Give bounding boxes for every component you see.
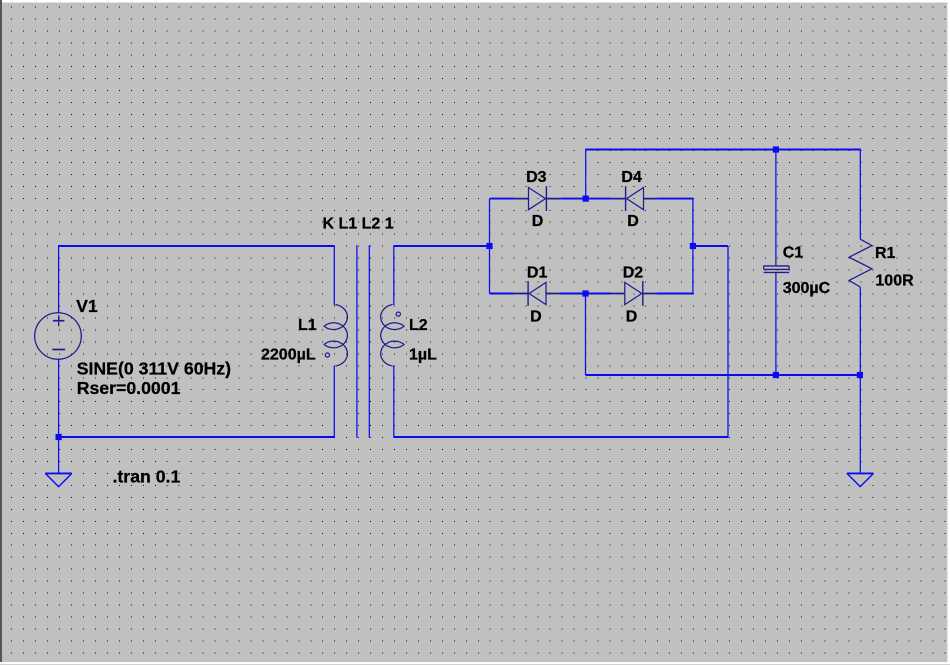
svg-text:D: D	[530, 308, 542, 325]
svg-text:.tran 0.1: .tran 0.1	[113, 467, 181, 487]
svg-text:D1: D1	[527, 265, 548, 282]
svg-text:D: D	[627, 213, 639, 230]
svg-text:R1: R1	[875, 245, 896, 262]
svg-text:D: D	[532, 213, 544, 230]
svg-text:D: D	[626, 308, 638, 325]
svg-text:L1: L1	[298, 317, 317, 334]
svg-text:D3: D3	[526, 169, 547, 186]
svg-text:D4: D4	[621, 169, 642, 186]
svg-text:V1: V1	[76, 296, 98, 316]
svg-text:100R: 100R	[875, 273, 914, 290]
svg-text:K L1 L2 1: K L1 L2 1	[323, 216, 394, 233]
svg-text:L2: L2	[409, 317, 428, 334]
svg-text:SINE(0 311V 60Hz): SINE(0 311V 60Hz)	[77, 359, 231, 379]
svg-text:D2: D2	[623, 265, 644, 282]
svg-text:Rser=0.0001: Rser=0.0001	[77, 378, 181, 398]
svg-text:300µC: 300µC	[783, 280, 831, 297]
svg-text:C1: C1	[783, 245, 804, 262]
svg-text:1µL: 1µL	[409, 346, 437, 363]
svg-text:2200µL: 2200µL	[261, 346, 316, 363]
